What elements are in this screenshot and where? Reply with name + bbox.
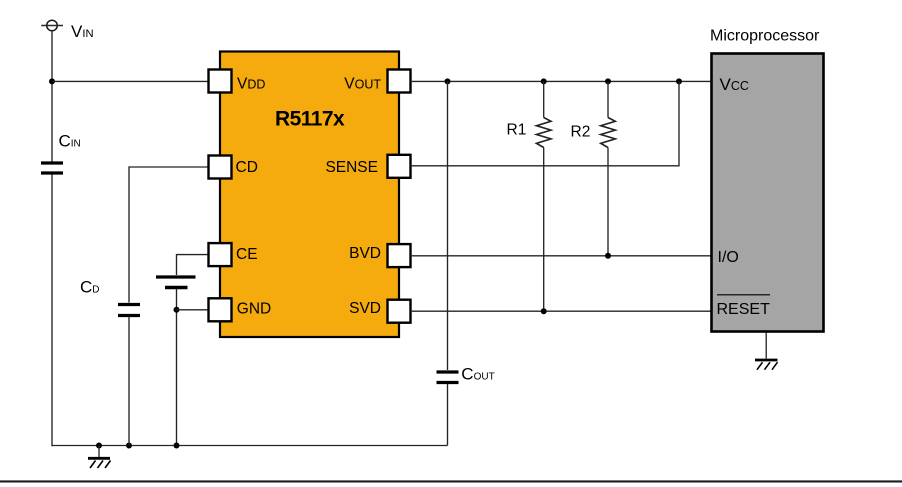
wire ground stub (98, 446, 100, 458)
svg-text:RESET: RESET (717, 301, 771, 318)
node junction battery line on rail (174, 443, 180, 449)
svg-text:VOUT: VOUT (344, 76, 381, 93)
node junction SENSE feedback (676, 78, 682, 84)
resistor R2 (601, 81, 616, 255)
wire GND pin horizontal (177, 309, 209, 311)
ground symbol left (88, 458, 111, 468)
wire CIN to ground rail (51, 175, 53, 447)
svg-text:COUT: COUT (461, 364, 494, 383)
svg-text:R2: R2 (571, 124, 591, 141)
wire CD vertical upper (128, 166, 130, 302)
svg-text:VIN: VIN (71, 22, 94, 41)
wire CD pin horizontal (129, 166, 209, 168)
capacitor COUT (437, 372, 459, 383)
node junction R1 bottom (541, 308, 547, 314)
IC U1 R5117x body (220, 52, 399, 338)
node junction CD branch on rail (126, 443, 132, 449)
ground symbol microprocessor (755, 360, 778, 370)
wire battery to ground rail (176, 289, 178, 446)
pin CD square (209, 156, 232, 179)
wire COUT vertical (447, 81, 449, 370)
wire SENSE feedback (411, 81, 680, 165)
wire VIN vertical upper (51, 30, 53, 161)
svg-text:I/O: I/O (718, 249, 739, 266)
node junction GND pin (174, 307, 180, 313)
node junction ground stub (96, 443, 102, 449)
pin GND square (209, 298, 232, 321)
node junction R1 top (541, 78, 547, 84)
pin BVD square (388, 244, 411, 267)
wire ground rail (51, 445, 447, 447)
svg-text:VDD: VDD (237, 76, 265, 93)
wire BVD to I/O (411, 255, 711, 257)
capacitor CIN (41, 163, 63, 173)
battery cell (156, 277, 196, 288)
wire VIN to VDD pin (52, 80, 209, 82)
svg-text:R5117x: R5117x (275, 108, 345, 131)
pin SENSE square (388, 155, 411, 178)
svg-text:Microprocessor: Microprocessor (710, 28, 820, 45)
wire COUT to rail (447, 384, 449, 446)
capacitor CD (118, 305, 140, 316)
node junction VIN/VDD (49, 78, 55, 84)
svg-text:CIN: CIN (59, 132, 81, 151)
node junction COUT tap (445, 78, 451, 84)
svg-text:SVD: SVD (349, 300, 381, 317)
microprocessor block (712, 54, 824, 332)
svg-text:CD: CD (236, 159, 258, 176)
wire SVD to RESET (411, 310, 711, 312)
svg-text:BVD: BVD (349, 245, 381, 262)
svg-text:CD: CD (80, 277, 100, 296)
node junction R2 top (605, 78, 611, 84)
page footer rule (0, 480, 902, 482)
wire CE pin to battery (177, 255, 209, 275)
wire CD vertical lower (128, 317, 130, 446)
pin VDD square (209, 70, 232, 93)
pin CE square (209, 243, 232, 266)
node junction R2 bottom (605, 253, 611, 259)
svg-text:SENSE: SENSE (325, 159, 378, 176)
pin VOUT square (388, 70, 411, 93)
resistor R1 (536, 81, 551, 311)
input terminal VIN (41, 20, 63, 31)
pin SVD square (388, 300, 411, 323)
svg-text:CE: CE (236, 246, 258, 263)
svg-text:R1: R1 (507, 122, 527, 139)
wire VOUT to VCC (411, 80, 711, 82)
svg-text:GND: GND (237, 301, 271, 318)
pin label RESET with overline (717, 295, 771, 318)
wire microprocessor ground stub (765, 333, 767, 359)
